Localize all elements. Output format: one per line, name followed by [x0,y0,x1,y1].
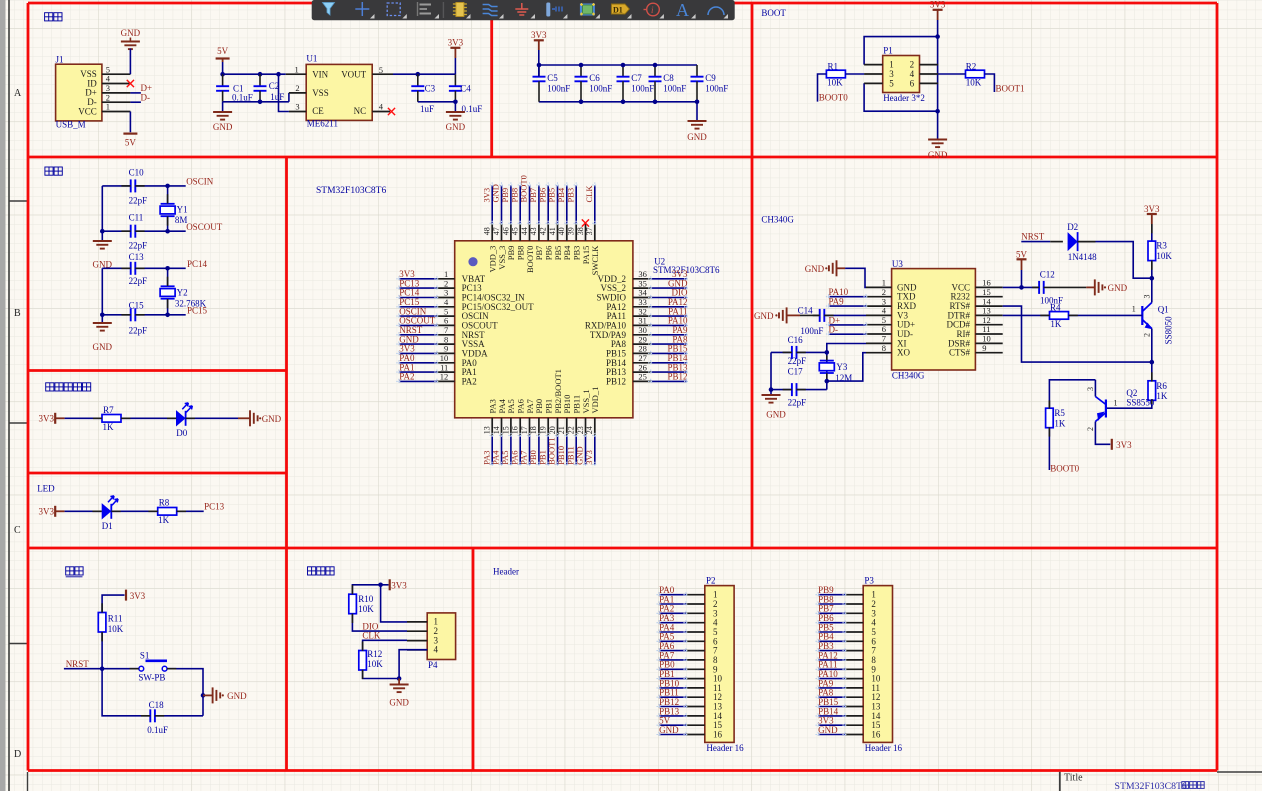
U2 pin 22 PB11 [575,418,577,436]
svg-text:PA2: PA2 [399,372,414,382]
U1 pin 1 VIN [286,73,306,75]
svg-text:C10: C10 [129,168,145,178]
svg-text:41: 41 [548,227,557,235]
U2 pin 13 PA3 [491,418,493,436]
ground GND below Y3 group [762,394,781,396]
U2 pin 6 OSCOUT [399,324,437,326]
svg-text:100nF: 100nF [705,84,728,94]
no-ERC marker on U1 pin 4 [388,108,395,115]
svg-text:D2: D2 [1067,222,1078,232]
svg-text:C16: C16 [788,335,804,345]
svg-text:2: 2 [1086,427,1095,431]
svg-text:37: 37 [585,227,594,235]
svg-text:14: 14 [492,426,501,434]
svg-text:P3: P3 [864,575,874,585]
svg-text:18: 18 [529,426,538,434]
wire R8 to PC13 [177,510,204,512]
wire 3V3 to D1 [65,510,102,512]
svg-text:R6: R6 [1156,381,1167,391]
svg-text:23: 23 [576,426,585,434]
U2 pin 11 PA1 [399,371,437,373]
ground GND below Y1 group [93,240,112,242]
wire R5 to BOOT0 [1048,427,1050,470]
svg-text:10K: 10K [1156,251,1172,261]
svg-text:GND: GND [446,122,466,132]
P2 pin 8 net PA7 [659,659,686,661]
crystal Y3 12M [825,350,830,355]
U2 pin 23 VSS_1 [585,418,587,436]
U2 pin 14 PA4 [501,418,503,436]
svg-text:GND: GND [262,414,282,424]
svg-text:D1: D1 [613,6,623,15]
net label D+ [130,92,141,94]
LED D0 [176,410,186,426]
svg-text:16: 16 [713,730,723,740]
svg-text:10K: 10K [966,78,982,88]
U2 pin 45 PB8 [519,223,521,241]
svg-text:C8: C8 [663,73,674,83]
svg-text:U3: U3 [892,259,903,269]
svg-text:42: 42 [539,227,548,235]
svg-text:1: 1 [1114,399,1118,408]
toolbar icon arc [708,7,724,15]
U1 pin 2 VSS [289,92,306,94]
U1 pin 3 CE [289,111,306,113]
svg-text:47: 47 [492,227,501,235]
svg-text:3V3: 3V3 [531,30,547,40]
svg-text:Header 16: Header 16 [865,743,903,753]
U3 pin 15 R232 [975,296,1002,298]
svg-text:1K: 1K [1054,419,1066,429]
P3 pin 4 net PB6 [818,622,845,624]
P3 pin 6 net PB4 [818,640,845,642]
U3 pin 9 CTS# [975,352,1002,354]
svg-text:C18: C18 [149,700,165,710]
svg-text:R5: R5 [1054,408,1065,418]
U2 pin 40 PB4 [566,223,568,241]
wire R4 to Q1 base [1069,314,1143,316]
U2 pin 2 PC13 [399,287,437,289]
svg-text:PC14: PC14 [187,259,208,269]
capacitor C2 1uF [259,74,261,86]
wire P4 pin4 down to gnd [399,650,427,679]
svg-text:STM32F103C8T6: STM32F103C8T6 [316,186,386,196]
P2 pin 11 net PB10 [659,687,686,689]
wire D2 to R3 node [1096,242,1152,279]
U3 pin 16 VCC [975,286,1002,288]
wire pin5 loop to GND [864,83,938,111]
U2 pin 42 PB6 [547,223,549,241]
P3 pin 9 net PA11 [818,668,845,670]
U2 pin 17 PA7 [529,418,531,436]
U2 pin 30 TXD/PA9 [633,334,651,336]
P2 pin 12 net PB11 [659,696,686,698]
svg-text:1K: 1K [1156,391,1168,401]
svg-text:45: 45 [511,227,520,235]
svg-text:20: 20 [548,426,557,434]
svg-text:GND: GND [659,725,679,735]
J1 pin 1 VCC [102,111,130,113]
svg-text:3V3: 3V3 [1116,440,1132,450]
P3 pin 10 net PA10 [818,678,845,680]
svg-text:39: 39 [567,227,576,235]
svg-text:SS8050: SS8050 [1164,316,1174,345]
svg-text:17: 17 [520,426,529,434]
svg-text:0.1uF: 0.1uF [147,725,168,735]
wire VOUT to 3V3 [393,73,455,75]
U2 pin 27 PB14 [633,362,651,364]
svg-text:Q1: Q1 [1158,305,1169,315]
wire RTS down and across [1003,306,1152,362]
ground GND below C9 [696,102,698,120]
U2 pin 12 PA2 [399,380,437,382]
P2 pin 14 net PB13 [659,715,686,717]
floating toolbar [312,0,735,20]
U2 pin 20 PB2/BOOT1 [557,418,559,436]
svg-text:SS8550: SS8550 [1126,398,1155,408]
svg-text:R7: R7 [103,405,114,415]
svg-text:1K: 1K [103,422,115,432]
U2 pin 26 PB13 [633,371,651,373]
svg-text:Header 16: Header 16 [706,743,744,753]
net label PA9 [829,305,867,307]
power port 3V3 (download) [352,585,388,595]
svg-text:3V3: 3V3 [391,580,407,590]
svg-text:Y2: Y2 [177,287,188,297]
svg-text:VIN: VIN [312,69,328,79]
svg-text:VOUT: VOUT [341,69,366,79]
U2 pin 3 PC14/OSC32_IN [399,297,437,299]
svg-text:PA2: PA2 [462,376,477,386]
svg-text:CLK: CLK [362,631,381,641]
P3 pin 11 net PA9 [818,687,845,689]
resistor R12 10K [359,651,367,671]
U2 pin 47 VSS_3 [501,223,503,241]
U2 pin 34 SWDIO [633,297,651,299]
capacitor C5 100nF [538,65,540,77]
toolbar icon net label D1 [611,4,629,14]
U1 pin 5 VOUT [372,73,393,75]
P1 pins 1/2 [864,64,883,66]
P2 pin 13 net PB12 [659,706,686,708]
component terminal pin stubs [93,417,102,419]
svg-text:GND: GND [928,150,948,160]
wire 3V3 down to P1 [937,20,939,111]
section title 电源指示灯 (power LED) [46,383,54,391]
gnd rail C3-C4 [418,101,456,103]
svg-text:Title: Title [1064,773,1083,784]
P3 pin 1 net PB9 [818,594,845,596]
net label D- [130,101,141,103]
svg-text:3V3: 3V3 [448,38,464,48]
svg-text:2: 2 [295,83,299,93]
capacitor C9 100nF [696,65,698,77]
P2 pin 9 net PB0 [659,668,686,670]
capacitor C18 0.1uF [102,669,150,716]
P3 pin 13 net PB15 [818,706,845,708]
wire pin1 loop to 3V3 [864,37,938,65]
section title 晶振 (crystal) [45,167,53,175]
svg-text:0.1uF: 0.1uF [232,92,253,102]
svg-text:USB_M: USB_M [56,120,86,130]
U2 pin 41 PB5 [557,223,559,241]
svg-text:NRST: NRST [66,659,90,669]
svg-text:1: 1 [295,64,299,74]
U2 pin 19 PB1 [547,418,549,436]
section title 电源 (power) [45,13,53,21]
svg-text:R12: R12 [367,649,382,659]
svg-text:C11: C11 [129,213,144,223]
toolbar icon filter [323,3,335,16]
wire S1 to gnd corner [167,669,203,716]
svg-text:GND: GND [766,410,786,420]
svg-text:C6: C6 [589,73,600,83]
svg-text:8: 8 [882,343,886,353]
svg-text:22pF: 22pF [129,276,148,286]
J1 pin 3 D+ [102,92,130,94]
svg-text:3V3: 3V3 [39,507,55,517]
svg-text:46: 46 [501,227,510,235]
svg-text:ME6211: ME6211 [307,119,338,129]
svg-text:44: 44 [520,227,529,235]
U3 pin 12 DCD# [975,324,1002,326]
power port 3V3 (reset) [102,595,124,613]
U2 pin 37 SWCLK [594,223,596,241]
svg-text:9: 9 [982,343,986,353]
section title 下载口 (download port) [308,567,316,575]
LED D1 [102,503,112,519]
U2 pin 43 PB7 [538,223,540,241]
svg-text:6: 6 [910,78,915,88]
GND rail under C1/C2 [223,101,289,103]
transistor Q1 SS8050 [1141,306,1143,325]
svg-text:C9: C9 [705,73,716,83]
toolbar icon probe [546,3,550,17]
svg-text:13: 13 [483,426,492,434]
no-ERC marker on U2 pin 38 [582,219,589,226]
svg-text:3: 3 [295,101,299,111]
svg-text:GND: GND [687,132,707,142]
title block lines [1217,771,1262,773]
MCU U2 body [455,241,633,418]
svg-text:PB12: PB12 [667,372,687,382]
U2 pin 29 PA8 [633,343,651,345]
svg-text:GND: GND [93,342,113,352]
wire VCC to C12 [1003,286,1039,288]
svg-text:PA9: PA9 [829,297,845,307]
wire XI to crystal [827,344,866,353]
toolbar icon place component [580,4,595,16]
U3 pin 7 XI [866,342,892,344]
U2 pin 4 PC15/OSC32_OUT [399,306,437,308]
P2 pin 15 net 5V [659,724,686,726]
svg-text:Y1: Y1 [177,205,188,215]
svg-text:16: 16 [871,730,881,740]
svg-text:GND: GND [121,28,141,38]
svg-text:CTS#: CTS# [949,348,971,358]
U3 pin 3 RXD [866,305,892,307]
svg-text:100nF: 100nF [547,84,570,94]
svg-text:R11: R11 [108,613,123,623]
wire R12 to gnd node [363,670,400,679]
svg-text:R10: R10 [358,594,374,604]
capacitor C6 100nF [580,65,582,77]
U2 pin 7 NRST [399,334,437,336]
U2 pin1 marker [468,257,477,266]
svg-text:1uF: 1uF [420,104,434,114]
wire R6 to Q2 base [1106,399,1152,408]
svg-text:1K: 1K [1050,319,1062,329]
U2 pin 46 PB9 [510,223,512,241]
wire R10 to DIO row [352,614,407,631]
svg-text:D0: D0 [176,428,187,438]
P2 pin 16 net GND [659,734,686,736]
svg-text:SWCLK: SWCLK [590,245,600,276]
svg-text:10K: 10K [827,78,843,88]
svg-text:D1: D1 [102,521,113,531]
svg-text:B: B [14,308,21,319]
svg-text:C3: C3 [425,84,436,94]
svg-text:BOOT0: BOOT0 [1050,464,1079,474]
svg-text:1uF: 1uF [270,92,284,102]
svg-text:5V: 5V [1016,249,1028,259]
svg-text:GND: GND [213,122,233,132]
wire 5V rail to U1 VIN [223,62,286,74]
J1 pin 2 D- [102,101,130,103]
svg-text:LED: LED [37,483,55,493]
svg-text:22pF: 22pF [788,397,807,407]
svg-text:GND: GND [1108,283,1128,293]
svg-text:100nF: 100nF [589,84,612,94]
svg-text:BOOT: BOOT [761,8,786,18]
svg-text:3: 3 [1143,295,1152,299]
U2 pin 48 VDD_3 [491,223,493,241]
capacitor C8 100nF [654,65,656,77]
svg-text:PB12: PB12 [606,376,626,386]
svg-text:3: 3 [1086,387,1095,391]
wire Q2 collector to R5 [1049,380,1095,409]
svg-text:4: 4 [379,101,384,111]
svg-text:22pF: 22pF [129,326,148,336]
svg-text:A: A [14,88,22,99]
ground GND after C12 [1086,286,1095,288]
U3 pin 14 RTS# [975,305,1002,307]
svg-text:VSS: VSS [312,88,329,98]
svg-text:16: 16 [511,426,520,434]
ground GND below P1 [937,111,939,139]
svg-text:SW-PB: SW-PB [138,672,165,682]
P2 pin 6 net PA5 [659,640,686,642]
3V3 rail of cap bank [539,64,697,66]
svg-text:C4: C4 [460,84,471,94]
svg-text:25: 25 [638,372,647,382]
svg-text:5V: 5V [217,46,229,56]
wire CE tie to VIN rail [279,74,289,111]
section frame lines [28,2,1217,5]
svg-text:GND: GND [805,264,825,274]
svg-text:2: 2 [1143,333,1152,337]
svg-text:NC: NC [354,106,367,116]
U3 pin 2 TXD [866,296,892,298]
capacitor C1 0.1uF [222,74,224,86]
U2 pin 5 OSCIN [399,315,437,317]
P3 pin 8 net PA12 [818,659,845,661]
wire BOOT0 to R1 [818,74,827,102]
U3 pin 13 DTR# [975,314,1002,316]
svg-text:BOOT0: BOOT0 [819,93,848,103]
net label D+ [829,324,867,326]
P4 pin 1 [407,621,427,623]
svg-text:5: 5 [379,65,383,75]
svg-text:21: 21 [557,426,566,434]
svg-text:C13: C13 [129,252,145,262]
svg-text:OSCIN: OSCIN [186,177,214,187]
left rail to ground (Y3) [770,352,772,394]
ground GND below C1 [222,102,224,111]
wire C5 top to rail [538,65,540,77]
ground GND (power LED row) [249,410,251,426]
P2 pin 7 net PA6 [659,650,686,652]
P3 pin 2 net PB8 [818,603,845,605]
svg-text:3V3: 3V3 [930,0,946,10]
svg-text:C17: C17 [788,366,804,376]
toolbar icon select area [387,3,400,16]
wire D0 to GND [186,417,238,419]
svg-text:GND: GND [227,691,247,701]
svg-text:VCC: VCC [78,106,97,116]
U3 pin 6 UD- [866,333,892,335]
svg-text:12M: 12M [835,373,852,383]
U2 pin 18 PB0 [538,418,540,436]
P1 pins 5/6 [864,82,883,84]
wire R7 to D0 [121,417,176,419]
U2 pin 38 PA15 [585,223,587,241]
wire R1 to P1 pin3 [845,73,864,75]
svg-text:P4: P4 [428,660,438,670]
svg-text:1: 1 [106,102,110,112]
wire J1 VSS to GND [129,49,131,75]
resistor R11 10K [98,613,106,633]
U3 pin 10 DSR# [975,342,1002,344]
svg-text:C14: C14 [798,306,814,316]
net label PA10 [829,296,867,298]
header P4 [427,613,455,660]
U2 pin 24 VDD_1 [594,418,596,436]
svg-text:22pF: 22pF [129,241,148,251]
svg-text:10K: 10K [367,659,383,669]
wire U3 pin1 to GND [845,268,866,287]
svg-text:C5: C5 [547,73,558,83]
crystal Y1 [167,186,169,204]
svg-text:100nF: 100nF [663,84,686,94]
P3 pin 15 net 3V3 [818,724,845,726]
P3 pin 3 net PB7 [818,612,845,614]
svg-text:GND: GND [818,725,838,735]
svg-text:CE: CE [312,106,324,116]
svg-text:43: 43 [529,227,538,235]
svg-text:S1: S1 [140,651,150,661]
toolbar dropdown markers [370,14,375,19]
wire 3V3 down to P4 pin1 [381,585,407,622]
ground GND (reset) [203,694,213,696]
svg-text:22pF: 22pF [129,195,148,205]
U2 pin 15 PA5 [510,418,512,436]
wire NRST [64,668,139,670]
svg-text:3V3: 3V3 [130,591,146,601]
ground GND below C4 [454,102,456,111]
U2 pin 28 PB15 [633,352,651,354]
P2 pin 1 net PA0 [659,594,686,596]
